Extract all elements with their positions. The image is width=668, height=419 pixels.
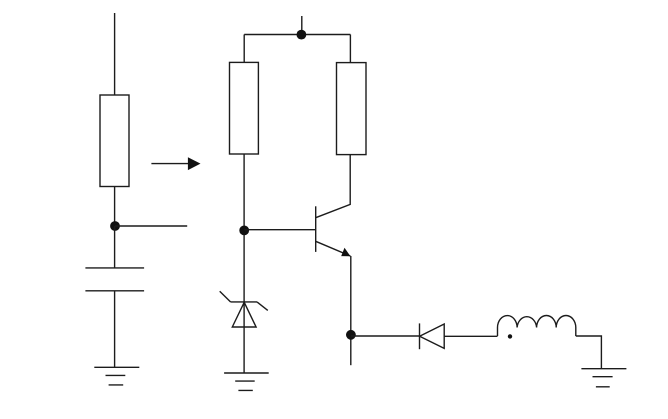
transistor Q1 emitter <box>316 241 351 256</box>
transistor Q1 emitter arrow <box>341 248 350 257</box>
wire R2 through node C to ground (zener leg) <box>243 154 245 373</box>
wire rail to R2 <box>243 35 245 63</box>
wire C1 to ground <box>114 291 116 368</box>
resistor R1 <box>100 95 129 187</box>
node A <box>110 221 120 231</box>
wire node D to diode D2 <box>351 335 420 337</box>
ground left <box>94 367 139 385</box>
wire top rail <box>244 34 350 36</box>
ground right <box>581 369 626 387</box>
inductor L1 <box>498 315 576 336</box>
arrow (transformation) <box>151 163 189 165</box>
capacitor C1 <box>85 268 144 291</box>
wire emitter down through node D <box>350 256 352 365</box>
wire node A to capacitor C1 <box>114 226 116 268</box>
wire L1 to ground <box>576 336 602 369</box>
transistor Q1 collector <box>316 155 351 218</box>
diode D2 triangle <box>420 324 445 348</box>
wire rail to R3 <box>349 35 351 63</box>
node B <box>297 30 307 40</box>
wire supply stub above node B <box>301 16 303 35</box>
resistor R2 <box>230 62 259 154</box>
zener diode D1 left tick <box>220 291 231 302</box>
wire R1 bottom to node A <box>114 187 116 227</box>
ground middle <box>224 373 269 390</box>
zener diode D1 right tick <box>257 302 268 311</box>
wire base <box>244 229 316 231</box>
zener diode D1 triangle <box>232 302 256 327</box>
diode D2 bar <box>419 323 421 349</box>
wire D2 to inductor L1 <box>444 335 497 337</box>
wire top feed left branch <box>114 13 116 95</box>
wire node A output stub right <box>115 225 187 227</box>
transistor Q1 base bar <box>315 206 317 252</box>
inductor L1 phasing dot <box>508 334 512 338</box>
zener diode D1 bar <box>231 301 258 303</box>
resistor R3 <box>337 63 367 155</box>
node C <box>239 226 249 236</box>
node D <box>346 330 356 340</box>
